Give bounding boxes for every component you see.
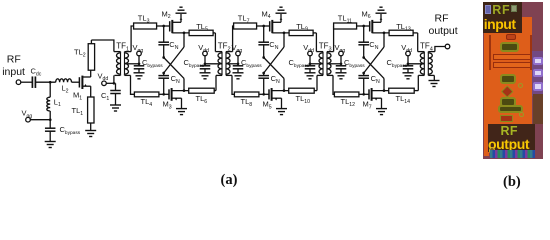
svg-text:Cbypass: Cbypass [387,58,408,69]
svg-text:L2: L2 [62,84,69,95]
svg-text:Cbypass: Cbypass [344,58,365,69]
svg-text:Vdd: Vdd [98,71,109,82]
svg-text:M6: M6 [362,9,371,20]
svg-text:CN: CN [171,74,180,85]
svg-text:M4: M4 [262,9,271,20]
svg-text:input: input [2,66,25,78]
svg-text:C1: C1 [101,91,109,102]
svg-text:M5: M5 [263,100,272,111]
svg-text:TF3: TF3 [319,42,332,53]
svg-text:CN: CN [371,74,380,85]
svg-text:M3: M3 [163,100,172,111]
svg-text:CN: CN [271,74,280,85]
svg-text:CN: CN [269,40,278,51]
svg-text:CN: CN [169,40,178,51]
svg-text:output: output [429,25,458,37]
svg-text:TF4: TF4 [420,42,433,53]
svg-text:L1: L1 [54,97,61,108]
svg-text:TL2: TL2 [74,48,86,59]
svg-text:TL10: TL10 [296,94,311,105]
svg-text:TL12: TL12 [341,97,356,108]
svg-text:TF2: TF2 [218,42,231,53]
svg-text:Cbypass: Cbypass [60,125,81,136]
svg-text:Cbypass: Cbypass [289,58,310,69]
svg-text:Cbypass: Cbypass [142,58,163,69]
svg-text:TL14: TL14 [396,94,411,105]
svg-text:Cbypass: Cbypass [241,58,262,69]
svg-text:RF: RF [435,13,449,25]
svg-text:M1: M1 [73,91,82,102]
svg-text:RF: RF [7,54,21,66]
svg-text:M7: M7 [363,100,372,111]
svg-text:CN: CN [369,40,378,51]
svg-text:TL1: TL1 [72,106,84,117]
svg-text:TL8: TL8 [241,97,253,108]
svg-text:TL4: TL4 [141,97,153,108]
svg-text:Cbypass: Cbypass [184,58,205,69]
svg-text:Cdc: Cdc [31,67,42,78]
svg-text:TF1: TF1 [116,42,129,53]
svg-text:M2: M2 [162,9,171,20]
svg-text:TL6: TL6 [196,94,208,105]
